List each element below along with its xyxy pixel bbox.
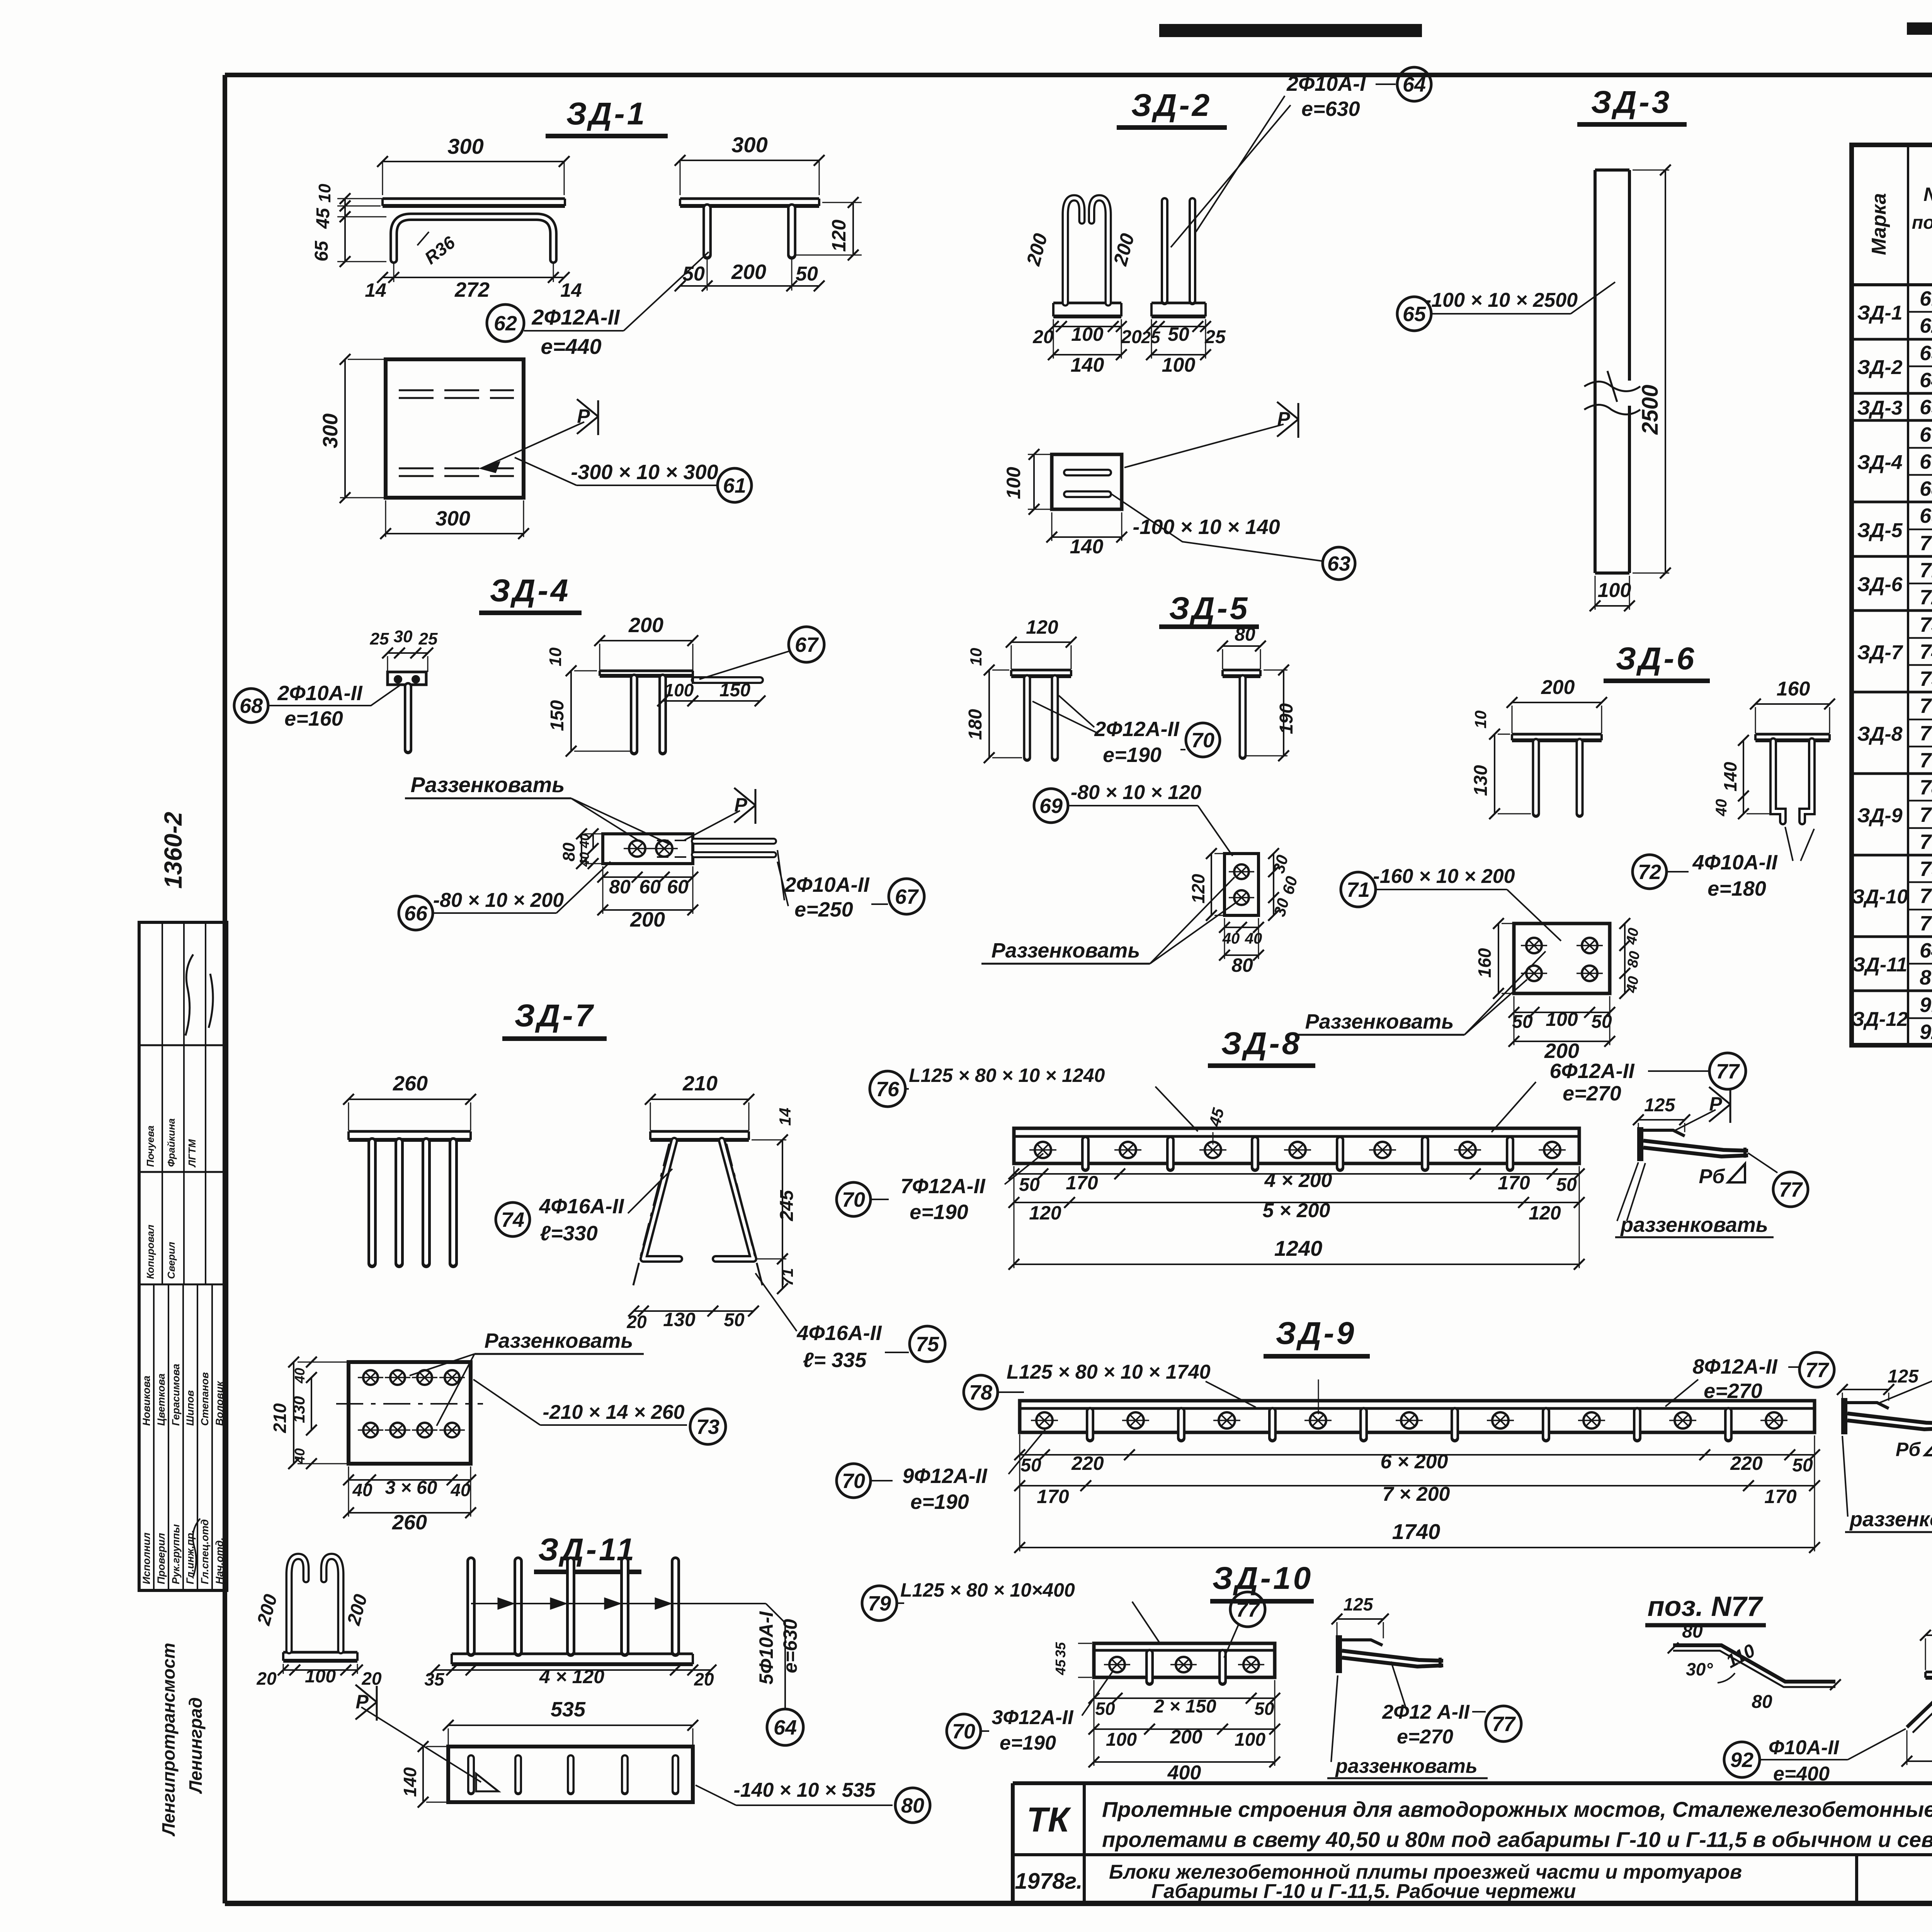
svg-text:260: 260 <box>393 1072 428 1095</box>
ЗД-9 angle bar L125x80x10x1740 with 9 holes and 8 studs <box>1020 1379 1815 1438</box>
svg-text:40: 40 <box>450 1480 471 1500</box>
svg-text:100: 100 <box>1106 1730 1137 1750</box>
svg-text:100: 100 <box>305 1666 336 1687</box>
svg-text:100: 100 <box>1003 467 1024 499</box>
svg-text:92: 92 <box>1920 1020 1932 1044</box>
ЗД-10 dimension chain <box>1088 1680 1280 1784</box>
svg-text:поз. N77: поз. N77 <box>1648 1591 1764 1622</box>
svg-text:Воловик: Воловик <box>214 1381 225 1426</box>
svg-text:1978г.: 1978г. <box>1015 1869 1082 1894</box>
ЗД-7 anchors callout 75 <box>755 1273 945 1372</box>
ЗД-5 plan view: plate 80x120 with 2 holes <box>1188 848 1301 976</box>
svg-text:е=190: е=190 <box>910 1490 969 1514</box>
svg-text:160: 160 <box>1777 678 1810 700</box>
ЗД-5 anchors callout 70 <box>1032 696 1220 767</box>
svg-text:ЗД-3: ЗД-3 <box>1857 397 1902 419</box>
ЗД-8 angle callout 76 <box>870 1065 1198 1131</box>
svg-text:е=190: е=190 <box>910 1201 968 1224</box>
svg-text:45: 45 <box>313 207 333 229</box>
svg-text:е=270: е=270 <box>1704 1379 1762 1403</box>
ЗД-3 tall strip plate with break <box>1584 165 1671 611</box>
svg-text:7 × 200: 7 × 200 <box>1383 1483 1450 1505</box>
svg-text:60: 60 <box>639 876 661 898</box>
ЗД-4 side view: small plate with rod <box>370 627 438 750</box>
svg-text:3Ф12А-II: 3Ф12А-II <box>992 1706 1074 1729</box>
svg-text:125: 125 <box>1344 1594 1374 1614</box>
ЗД-4 countersink note <box>405 772 671 845</box>
svg-text:68: 68 <box>240 694 263 718</box>
ЗД-4 plate callout 66 <box>399 862 611 930</box>
title block texts <box>1015 1743 1932 1903</box>
svg-text:25: 25 <box>370 629 389 648</box>
svg-text:70: 70 <box>1920 884 1932 908</box>
svg-text:L125 × 80 × 10 × 1740: L125 × 80 × 10 × 1740 <box>1007 1361 1211 1383</box>
svg-text:70: 70 <box>1920 532 1932 555</box>
svg-text:-100 × 10 × 140: -100 × 10 × 140 <box>1133 515 1280 539</box>
title ЗД-10 <box>1210 1561 1314 1601</box>
svg-text:100: 100 <box>1598 579 1631 602</box>
title ЗД-8 <box>1208 1026 1315 1066</box>
svg-text:30°: 30° <box>1686 1659 1713 1679</box>
svg-text:е=190: е=190 <box>1103 743 1162 767</box>
svg-text:64: 64 <box>1920 939 1932 962</box>
ЗД-9 studs callout 70 <box>837 1430 1045 1514</box>
svg-text:80: 80 <box>1752 1692 1772 1712</box>
top scanner marks <box>1159 22 1932 37</box>
svg-text:-80 × 10 × 120: -80 × 10 × 120 <box>1071 781 1201 804</box>
svg-text:пролетами в свету 40,50 и 8: пролетами в свету 40,50 и 80м под габари… <box>1102 1827 1932 1852</box>
svg-text:50: 50 <box>1019 1175 1040 1195</box>
svg-text:40: 40 <box>1713 799 1730 817</box>
svg-text:6 × 200: 6 × 200 <box>1381 1451 1448 1473</box>
svg-text:20: 20 <box>1121 327 1142 347</box>
svg-text:272: 272 <box>454 278 490 301</box>
bent rod position 77 profile <box>1668 1621 1841 1712</box>
svg-text:260: 260 <box>392 1511 427 1534</box>
svg-text:130: 130 <box>663 1309 696 1330</box>
svg-text:2Ф12А-II: 2Ф12А-II <box>1094 718 1179 741</box>
svg-text:10: 10 <box>967 648 985 666</box>
svg-text:25: 25 <box>1141 328 1160 347</box>
svg-text:77: 77 <box>1805 1359 1830 1382</box>
svg-text:76: 76 <box>1920 694 1932 718</box>
svg-text:150: 150 <box>719 680 750 701</box>
svg-text:Ф10А-II: Ф10А-II <box>1769 1736 1840 1759</box>
svg-text:100: 100 <box>664 680 694 700</box>
svg-text:120: 120 <box>1188 874 1208 903</box>
title ЗД-4 <box>479 573 582 613</box>
svg-text:ЛГТМ: ЛГТМ <box>186 1139 198 1168</box>
svg-text:ЗД-10: ЗД-10 <box>1213 1561 1313 1596</box>
svg-text:10: 10 <box>315 184 334 202</box>
ЗД-7 plate callout 73 <box>473 1379 726 1444</box>
title block grid <box>1013 1732 1932 1903</box>
title поз.N77 <box>1645 1591 1766 1625</box>
title ЗД-1 <box>546 96 668 136</box>
table data text <box>1852 287 1932 1044</box>
svg-text:72: 72 <box>1920 586 1932 609</box>
svg-text:40: 40 <box>352 1480 372 1500</box>
svg-text:1740: 1740 <box>1392 1519 1440 1544</box>
svg-text:77: 77 <box>1920 830 1932 854</box>
svg-text:Раззенковать: Раззенковать <box>411 772 565 797</box>
svg-text:4 × 200: 4 × 200 <box>1264 1169 1332 1192</box>
svg-text:ЗД-5: ЗД-5 <box>1857 519 1903 542</box>
svg-text:40: 40 <box>292 1368 308 1384</box>
svg-text:245: 245 <box>777 1190 797 1221</box>
ЗД-9 dimension chain <box>1014 1434 1820 1553</box>
svg-text:74: 74 <box>1920 640 1932 663</box>
svg-text:66: 66 <box>1920 423 1932 446</box>
svg-text:535: 535 <box>551 1698 586 1721</box>
svg-text:65: 65 <box>311 240 332 262</box>
svg-text:50: 50 <box>1254 1699 1274 1719</box>
title ЗД-7 <box>502 998 607 1039</box>
title ЗД-6 <box>1604 641 1710 681</box>
svg-text:64: 64 <box>1920 369 1932 392</box>
svg-text:ЗД-9: ЗД-9 <box>1857 804 1902 827</box>
svg-text:-300 × 10 × 300: -300 × 10 × 300 <box>571 461 718 484</box>
ЗД-8 dimension chain <box>1009 1166 1585 1270</box>
svg-text:раззенковать: раззенковать <box>1620 1213 1768 1236</box>
ЗД-2 side view: two straight rods on plate <box>1141 201 1226 376</box>
ЗД-5 front view: plate with two legs <box>965 616 1077 763</box>
svg-text:70: 70 <box>1191 729 1214 752</box>
svg-text:25: 25 <box>1204 327 1226 347</box>
ЗД-7 side view: splayed legs with feet <box>626 1072 797 1332</box>
svg-text:74: 74 <box>501 1208 524 1231</box>
svg-text:50: 50 <box>1591 1012 1612 1032</box>
svg-text:35: 35 <box>424 1669 445 1689</box>
svg-text:Новикова: Новикова <box>141 1376 152 1426</box>
table row lines <box>1852 312 1932 1018</box>
svg-text:Раззенковать: Раззенковать <box>485 1329 633 1352</box>
svg-text:9Ф12А-II: 9Ф12А-II <box>902 1464 987 1488</box>
ЗД-9 bent anchor callout 77 <box>1665 1352 1834 1406</box>
svg-text:е=630: е=630 <box>1301 97 1360 121</box>
ЗД-11 front view: plate with 5 prongs <box>424 1561 766 1689</box>
svg-text:200: 200 <box>628 614 663 637</box>
svg-text:60: 60 <box>667 876 689 898</box>
svg-text:N: N <box>1923 184 1932 205</box>
svg-text:2500: 2500 <box>1638 384 1663 435</box>
title ЗД-11 <box>534 1532 641 1572</box>
svg-text:Шипов: Шипов <box>184 1390 196 1426</box>
svg-text:210: 210 <box>682 1072 718 1095</box>
svg-text:40: 40 <box>1245 930 1262 947</box>
svg-text:Пролетные строения для авто: Пролетные строения для автодорожных мост… <box>1102 1797 1932 1821</box>
ЗД-1 plate callout 61 with weld mark <box>481 399 752 502</box>
svg-text:200: 200 <box>630 908 665 931</box>
svg-text:70: 70 <box>1920 803 1932 827</box>
ЗД-6 front view: plate with two legs <box>1471 676 1607 819</box>
svg-text:е=180: е=180 <box>1708 877 1766 900</box>
svg-text:ЗД-6: ЗД-6 <box>1616 641 1697 676</box>
svg-text:50: 50 <box>796 263 818 285</box>
svg-text:125: 125 <box>1644 1095 1675 1116</box>
ЗД-8 detail labels <box>1615 1153 1808 1237</box>
svg-text:67: 67 <box>895 885 919 908</box>
svg-text:50: 50 <box>1095 1699 1115 1719</box>
svg-text:ЗД-5: ЗД-5 <box>1169 591 1250 626</box>
svg-text:120: 120 <box>1029 1202 1061 1224</box>
svg-text:140: 140 <box>1720 762 1740 791</box>
svg-text:71: 71 <box>778 1268 796 1286</box>
svg-text:80: 80 <box>560 842 578 861</box>
ЗД-2 anchors callout 64 <box>1171 67 1431 247</box>
svg-text:Исполнил: Исполнил <box>141 1532 152 1584</box>
svg-text:-140 × 10 × 535: -140 × 10 × 535 <box>733 1779 876 1801</box>
ЗД-1 anchor callout 62 <box>487 252 709 359</box>
svg-text:4Ф16А-II: 4Ф16А-II <box>796 1321 882 1345</box>
ЗД-11 plan view: plate 140x535 with 5 slots <box>355 1685 698 1808</box>
svg-text:Фрайкина: Фрайкина <box>165 1118 177 1167</box>
svg-text:Почуева: Почуева <box>145 1126 156 1167</box>
svg-text:73: 73 <box>696 1415 719 1439</box>
ЗД-6 plan view: plate 160x200 with 4 holes <box>1475 918 1643 1063</box>
svg-text:50: 50 <box>1512 1012 1533 1032</box>
svg-text:72: 72 <box>1638 861 1661 884</box>
svg-text:Рб: Рб <box>1896 1439 1921 1460</box>
svg-text:2Ф10А-II: 2Ф10А-II <box>277 682 362 705</box>
svg-text:125: 125 <box>1888 1366 1919 1387</box>
svg-text:7Ф12А-II: 7Ф12А-II <box>900 1175 985 1198</box>
ЗД-10 studs callout 70 <box>947 1671 1113 1754</box>
svg-text:Раззенковать: Раззенковать <box>1305 1010 1454 1033</box>
svg-text:160: 160 <box>1475 948 1495 978</box>
ЗД-6 side view: plate with hooked legs <box>1713 678 1835 821</box>
svg-text:14: 14 <box>560 279 582 301</box>
svg-text:80: 80 <box>901 1794 924 1817</box>
left margin stamp table <box>139 922 227 1590</box>
svg-text:ЗД-7: ЗД-7 <box>515 998 595 1033</box>
svg-text:е=630: е=630 <box>779 1619 801 1673</box>
svg-text:100: 100 <box>1235 1730 1265 1750</box>
svg-text:Копировал: Копировал <box>145 1225 156 1279</box>
organization name rotated <box>158 1643 206 1837</box>
svg-text:ЗД-6: ЗД-6 <box>1857 573 1903 596</box>
svg-text:поз.: поз. <box>1912 213 1932 233</box>
svg-text:100: 100 <box>1071 323 1104 345</box>
svg-text:Гл.инж.пр.: Гл.инж.пр. <box>184 1530 196 1584</box>
svg-text:200: 200 <box>1170 1726 1202 1748</box>
svg-text:30: 30 <box>394 627 413 646</box>
ЗД-11 plate callout 80 <box>696 1779 930 1823</box>
svg-text:190: 190 <box>1276 703 1297 734</box>
ЗД-1 side view: plate with two anchor legs <box>675 133 862 291</box>
svg-text:е=160: е=160 <box>284 707 343 730</box>
svg-text:ЗД-1: ЗД-1 <box>1857 302 1902 324</box>
svg-text:4 × 120: 4 × 120 <box>539 1666 604 1687</box>
svg-text:65: 65 <box>1403 303 1426 326</box>
svg-text:50: 50 <box>1020 1455 1041 1476</box>
ЗД-4 plan view: plate 80x200 with 2 countersunk holes and rods <box>560 788 774 931</box>
title ЗД-2 <box>1117 88 1227 128</box>
svg-text:Гл.спец.отд: Гл.спец.отд <box>199 1519 211 1584</box>
svg-text:ЗД-11: ЗД-11 <box>1852 954 1907 976</box>
svg-text:100: 100 <box>1546 1009 1578 1030</box>
svg-text:ЗД-1: ЗД-1 <box>566 96 647 131</box>
svg-text:170: 170 <box>1037 1486 1069 1507</box>
svg-text:140: 140 <box>1071 354 1104 376</box>
ЗД-6 countersink note <box>1295 951 1546 1035</box>
svg-text:77: 77 <box>1779 1178 1803 1201</box>
svg-text:70: 70 <box>842 1188 865 1211</box>
svg-text:10: 10 <box>546 647 565 666</box>
svg-text:75: 75 <box>916 1333 939 1356</box>
table header texts <box>1868 150 1932 286</box>
svg-text:35: 35 <box>1053 1642 1068 1658</box>
svg-text:Марка: Марка <box>1868 193 1890 255</box>
ЗД-8 countersink detail with bent plate <box>1633 1087 1748 1161</box>
svg-text:120: 120 <box>828 219 850 252</box>
svg-text:ЗД-2: ЗД-2 <box>1131 88 1212 123</box>
svg-text:71: 71 <box>1347 878 1370 901</box>
svg-text:300: 300 <box>731 133 767 157</box>
svg-text:130: 130 <box>290 1396 308 1423</box>
ЗД-3 plate callout 65 <box>1397 282 1615 331</box>
ЗД-9 angle callout 78 <box>964 1361 1256 1409</box>
svg-text:40: 40 <box>577 833 592 849</box>
ЗД-5 countersink note <box>981 877 1236 964</box>
svg-text:ЗД-3: ЗД-3 <box>1591 85 1672 120</box>
svg-text:50: 50 <box>724 1310 745 1330</box>
svg-text:ℓ= 335: ℓ= 335 <box>803 1349 867 1372</box>
svg-text:140: 140 <box>400 1767 420 1797</box>
ЗД-10 angle callout 79 <box>862 1579 1159 1642</box>
svg-text:69: 69 <box>1920 504 1932 527</box>
ЗД-8 bent anchor callout 77 (top) <box>1492 1053 1746 1132</box>
ЗД-5 side view: plate with one leg <box>1217 624 1297 761</box>
svg-text:Раззенковать: Раззенковать <box>992 939 1140 962</box>
svg-text:5Ф10А-I: 5Ф10А-I <box>755 1611 777 1684</box>
svg-text:80: 80 <box>1235 624 1255 645</box>
svg-text:69: 69 <box>1039 794 1063 818</box>
svg-text:40: 40 <box>1623 975 1642 994</box>
svg-text:2Ф10А-II: 2Ф10А-II <box>784 873 869 896</box>
svg-text:20: 20 <box>256 1668 277 1689</box>
svg-text:80: 80 <box>1624 950 1643 969</box>
ЗД-10 angle bar L125x80x10x400 with 3 holes <box>1053 1642 1275 1682</box>
ЗД-11 side view: hooked U anchor on plate <box>253 1556 382 1689</box>
ЗД-4 anchor callout 67 (bottom right) <box>777 850 924 921</box>
ЗД-7 countersink note <box>410 1329 644 1426</box>
svg-text:63: 63 <box>1327 552 1350 575</box>
svg-text:6Ф12А-II: 6Ф12А-II <box>1549 1060 1634 1083</box>
svg-text:Проверил: Проверил <box>155 1533 167 1584</box>
svg-text:20: 20 <box>1032 327 1054 347</box>
svg-text:Габариты Г-10 и Г-11,5.: Габариты Г-10 и Г-11,5. Рабочие чертежи <box>1151 1880 1576 1903</box>
svg-text:300: 300 <box>319 413 342 448</box>
svg-text:200: 200 <box>1541 676 1575 699</box>
svg-text:Степанов: Степанов <box>199 1372 211 1426</box>
svg-text:77: 77 <box>1716 1060 1740 1083</box>
svg-text:-160 × 10 × 200: -160 × 10 × 200 <box>1373 865 1515 888</box>
svg-text:77: 77 <box>1236 1598 1260 1621</box>
svg-text:73: 73 <box>1920 613 1932 636</box>
ЗД-1 front view: plate with U-anchor <box>311 134 582 301</box>
svg-text:65: 65 <box>1920 396 1932 419</box>
svg-text:77: 77 <box>1920 912 1932 935</box>
svg-text:220: 220 <box>1071 1452 1104 1474</box>
specification table grid <box>1852 145 1932 1045</box>
svg-text:Ленинград: Ленинград <box>185 1697 206 1794</box>
ЗД-4 main view: plate with two legs and side plate <box>546 614 765 757</box>
svg-text:40: 40 <box>1623 927 1642 946</box>
svg-text:Цветкова: Цветкова <box>155 1374 167 1426</box>
svg-text:79: 79 <box>1920 857 1932 881</box>
svg-text:80: 80 <box>1920 966 1932 989</box>
svg-text:91: 91 <box>1920 993 1932 1017</box>
svg-text:е=440: е=440 <box>541 334 601 359</box>
svg-text:77: 77 <box>1920 749 1932 772</box>
svg-text:Рук.группы: Рук.группы <box>170 1524 182 1584</box>
svg-text:ТК: ТК <box>1027 1801 1071 1839</box>
svg-text:Рб: Рб <box>1699 1165 1726 1188</box>
svg-text:66: 66 <box>404 902 428 925</box>
ЗД-12 front view: plate with bent sheet anchor <box>1901 1610 1932 1767</box>
ЗД-2 plan view: plate 100x140 with two slots <box>1003 449 1127 558</box>
ЗД-8 studs callout 70 <box>837 1153 1043 1224</box>
svg-text:3 × 60: 3 × 60 <box>385 1478 437 1498</box>
svg-text:120: 120 <box>1529 1202 1561 1224</box>
svg-text:ЗД-12: ЗД-12 <box>1852 1008 1908 1031</box>
svg-text:100: 100 <box>1162 354 1196 376</box>
svg-text:2Ф12 А-II: 2Ф12 А-II <box>1382 1701 1470 1723</box>
svg-text:50: 50 <box>1168 323 1189 345</box>
svg-text:170: 170 <box>1764 1486 1797 1507</box>
svg-text:Герасимова: Герасимова <box>170 1364 182 1426</box>
svg-text:ЗД-8: ЗД-8 <box>1221 1026 1302 1061</box>
svg-text:14: 14 <box>776 1108 794 1126</box>
svg-text:е=190: е=190 <box>1000 1732 1056 1754</box>
svg-text:170: 170 <box>1498 1172 1530 1194</box>
svg-text:2Ф12А-II: 2Ф12А-II <box>531 305 620 329</box>
svg-text:64: 64 <box>774 1716 797 1739</box>
svg-text:8Ф12А-II: 8Ф12А-II <box>1692 1355 1777 1378</box>
svg-text:-100 × 10 × 2500: -100 × 10 × 2500 <box>1425 289 1578 311</box>
svg-text:раззенковать: раззенковать <box>1335 1755 1478 1777</box>
svg-text:80: 80 <box>1682 1621 1703 1642</box>
svg-text:20: 20 <box>361 1668 382 1689</box>
svg-text:170: 170 <box>1066 1172 1098 1194</box>
svg-text:210: 210 <box>270 1403 290 1433</box>
ЗД-2 plate callout 63 with weld mark <box>1112 402 1355 580</box>
svg-text:67: 67 <box>795 633 819 656</box>
ЗД-2 front view: plate with hooked C-anchor <box>1022 198 1142 376</box>
svg-text:400: 400 <box>1167 1762 1201 1784</box>
callout 92 rod <box>1724 1729 1906 1785</box>
title ЗД-9 <box>1264 1316 1370 1356</box>
ЗД-5 plate callout 69 <box>1034 781 1233 856</box>
svg-text:40: 40 <box>577 852 592 867</box>
svg-text:4Ф16А-II: 4Ф16А-II <box>539 1195 624 1218</box>
svg-text:20: 20 <box>694 1669 714 1689</box>
svg-text:140: 140 <box>1070 536 1104 558</box>
svg-text:77: 77 <box>1492 1713 1516 1736</box>
svg-text:61: 61 <box>1920 287 1932 310</box>
svg-text:79: 79 <box>868 1592 891 1615</box>
svg-text:ℓ=330: ℓ=330 <box>540 1222 598 1245</box>
svg-text:Ленгипротрансмост: Ленгипротрансмост <box>158 1643 179 1837</box>
ЗД-4 anchor callout 67 (top) <box>699 627 824 679</box>
svg-text:180: 180 <box>965 709 986 740</box>
svg-text:120: 120 <box>1026 616 1058 638</box>
svg-text:78: 78 <box>969 1381 992 1404</box>
svg-text:ЗД-8: ЗД-8 <box>1857 723 1902 745</box>
svg-text:200: 200 <box>731 260 766 284</box>
svg-text:е=270: е=270 <box>1563 1082 1621 1105</box>
